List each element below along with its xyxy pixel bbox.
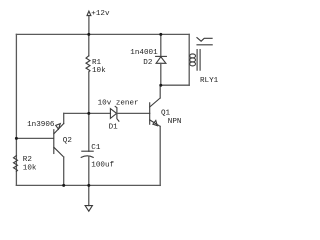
node dot C1 / bottom rail [87,184,90,187]
power +12v symbol [87,11,91,34]
wire Q2 base [16,137,53,139]
diode D2 1n4001 [156,56,167,63]
svg-text:D2: D2 [143,59,153,67]
wire Q1 collector riser [159,85,161,98]
svg-text:10k: 10k [23,165,37,173]
svg-text:100uf: 100uf [91,161,114,169]
wire relay bottom [161,84,189,86]
wire D2 top [160,34,162,56]
transistor Q2 (PNP 1n3906) [54,124,64,158]
svg-text:Q2: Q2 [63,137,73,145]
node dot left rail / Q2 base [15,137,18,140]
wire left rail [15,34,17,185]
wire Q2 collector lead [63,157,65,185]
transistor Q1 (NPN) [150,98,161,126]
node dot top bus / D2 [159,33,162,36]
svg-text:R2: R2 [23,156,33,164]
wire node down to C1 [88,113,90,151]
wire C1 bottom [88,156,90,185]
node dot top bus / R1 [87,33,90,36]
wire zener left [89,112,111,114]
node dot D2 / relay / Q1 collector [159,84,162,87]
capacitor C1 [81,151,93,157]
node dot Q2 collector / bottom rail [62,184,65,187]
resistor R2 [14,156,18,172]
wire relay right vertical [188,34,190,85]
relay core bars [197,50,200,71]
wire R1 bottom to node [88,72,90,113]
relay contact fixed [197,44,212,46]
resistor R1 [86,56,90,72]
svg-text:10v zener: 10v zener [98,100,139,108]
svg-text:1n4001: 1n4001 [130,49,158,57]
wire Q1 emitter lead [159,126,161,185]
relay contact armature [197,38,212,42]
node dot zener node [87,112,90,115]
svg-text:1n3906: 1n3906 [27,121,55,129]
wire R1 top [88,34,90,55]
wire node to Q2 corner [64,112,89,114]
svg-text:R1: R1 [92,59,102,67]
svg-text:RLY1: RLY1 [200,77,219,85]
wire bottom rail [16,184,160,186]
svg-text:NPN: NPN [168,118,182,126]
relay RLY1 coil [190,54,196,66]
svg-text:+12v: +12v [91,10,110,18]
zener diode D1 [110,106,119,121]
svg-text:D1: D1 [109,124,119,132]
wire top bus [16,33,189,35]
svg-text:10k: 10k [92,67,106,75]
svg-text:Q1: Q1 [161,110,171,118]
wire Q2 emitter lead [63,113,65,123]
wire zener right to Q1 base [117,112,150,114]
svg-text:C1: C1 [91,144,101,152]
wire D2 bottom [160,63,162,85]
ground [85,185,92,211]
